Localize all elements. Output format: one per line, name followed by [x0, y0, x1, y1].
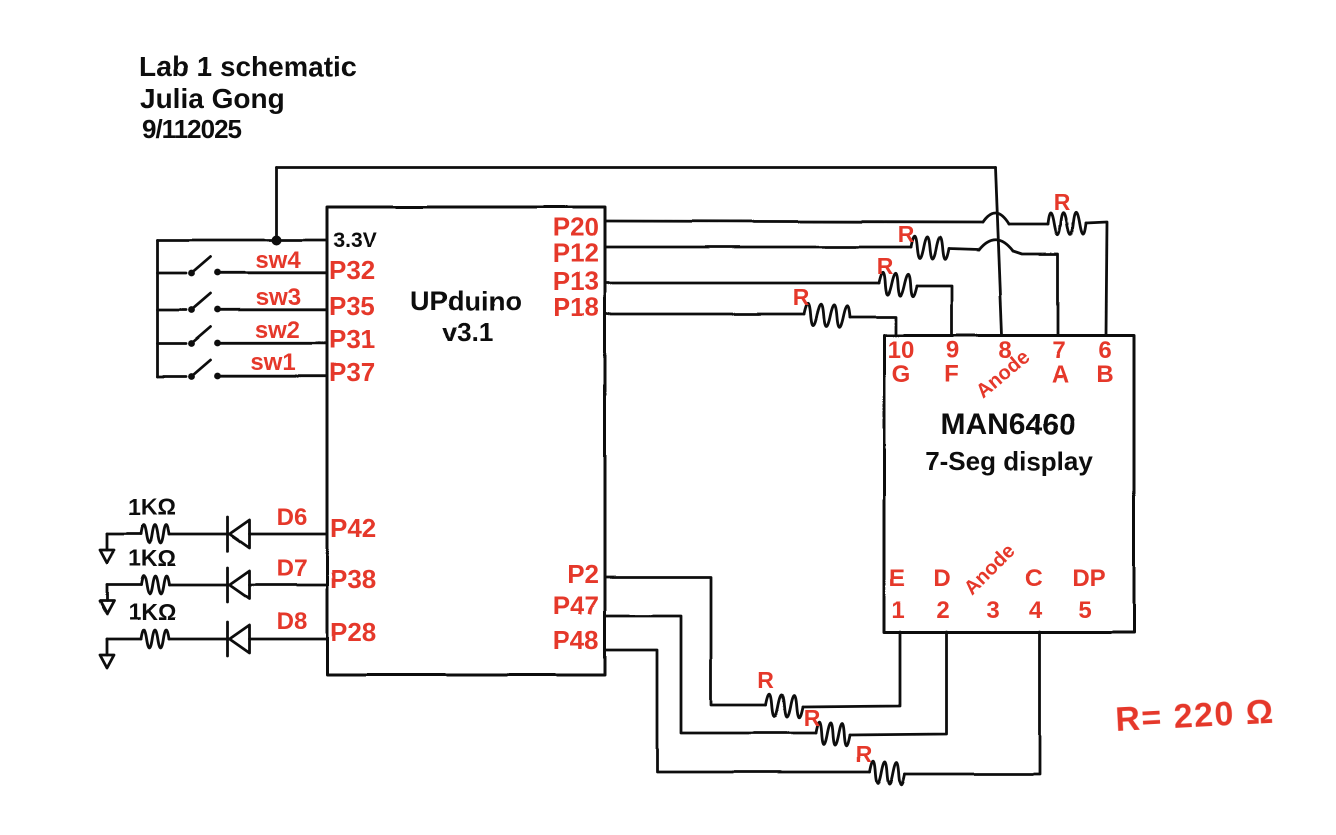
LED D7 branch	[100, 545, 327, 614]
switch SW3	[158, 284, 301, 313]
wire SW1 to P37	[218, 375, 328, 378]
svg-text:P35: P35	[329, 291, 375, 321]
wire 3.3V bus to U1	[158, 239, 328, 242]
svg-text:F: F	[945, 361, 960, 388]
wire 3.3V riser	[275, 168, 278, 241]
svg-text:3: 3	[986, 597, 999, 624]
resistor R 1K (D6)	[141, 525, 169, 543]
resistor R 1K (D8)	[141, 630, 169, 648]
svg-text:P28: P28	[330, 617, 376, 647]
wire R to LED D8	[169, 638, 229, 641]
resistor R (P2-1)	[766, 694, 803, 718]
wire 3.3V top run	[277, 166, 996, 169]
svg-text:1KΩ: 1KΩ	[128, 494, 176, 520]
svg-text:R: R	[804, 705, 821, 731]
svg-text:9/112025: 9/112025	[142, 114, 242, 144]
svg-text:P18: P18	[553, 292, 599, 322]
svg-text:P37: P37	[329, 357, 375, 387]
svg-text:6: 6	[1098, 337, 1111, 364]
resistor R (P18-10)	[804, 303, 850, 327]
ground	[106, 534, 109, 550]
wire P18 to display pin 10 with resistor R	[605, 284, 896, 335]
wire P2 to display pin 1 with resistor R	[605, 577, 900, 718]
wire SW4 to P32	[218, 271, 328, 274]
svg-text:P38: P38	[330, 564, 376, 594]
wire LED D8 to P28	[250, 638, 328, 641]
svg-text:R: R	[856, 741, 873, 767]
LED D6	[226, 517, 229, 551]
svg-text:4: 4	[1029, 597, 1043, 624]
switch SW1	[158, 349, 296, 380]
wire LED D6 to P42	[250, 533, 328, 536]
switch SW2	[158, 317, 300, 347]
wire switch bus vertical	[156, 240, 159, 377]
ground	[106, 639, 109, 655]
LED D8 branch	[100, 599, 327, 668]
svg-text:MAN6460: MAN6460	[940, 408, 1075, 441]
svg-text:A: A	[1051, 361, 1068, 388]
wire P48 to display pin 4 with resistor R	[605, 632, 1040, 785]
svg-text:G: G	[892, 361, 911, 388]
wire R to LED D7	[169, 584, 229, 587]
svg-text:C: C	[1025, 565, 1042, 592]
display U2 MAN6460 body	[884, 336, 1134, 633]
svg-text:R: R	[877, 253, 894, 279]
svg-text:1: 1	[891, 597, 904, 624]
svg-text:sw2: sw2	[254, 317, 299, 344]
svg-text:P12: P12	[553, 238, 599, 268]
resistor R (P12-7)	[911, 236, 949, 260]
svg-text:sw1: sw1	[250, 349, 295, 376]
wire ground to R	[107, 584, 141, 587]
wire ground to R	[107, 638, 141, 641]
wire ground to R	[107, 533, 141, 536]
svg-text:R: R	[1054, 189, 1071, 215]
svg-text:P47: P47	[553, 590, 599, 620]
wire R to LED D6	[169, 533, 229, 536]
svg-text:R: R	[758, 667, 775, 693]
svg-text:P31: P31	[329, 324, 375, 354]
svg-text:1KΩ: 1KΩ	[128, 599, 176, 625]
wire SW2 to P31	[218, 342, 328, 345]
svg-text:10: 10	[888, 337, 915, 364]
svg-text:sw3: sw3	[255, 284, 300, 311]
wire P47 to display pin 2 with resistor R	[605, 616, 946, 746]
wire SW3 to P35	[218, 308, 328, 311]
wire 3.3V drop to display pin 8	[996, 168, 1003, 336]
svg-text:R: R	[898, 221, 915, 247]
svg-text:5: 5	[1078, 597, 1091, 624]
svg-text:9: 9	[946, 337, 959, 364]
svg-text:Julia Gong: Julia Gong	[140, 83, 285, 114]
LED D6 branch	[100, 494, 327, 563]
svg-text:1KΩ: 1KΩ	[128, 545, 176, 571]
svg-text:UPduino: UPduino	[411, 286, 522, 316]
resistor R (P48-4)	[870, 761, 905, 785]
svg-text:P32: P32	[329, 255, 375, 285]
title text: Lab 1 schematic / Julia Gong / 9/112025	[139, 51, 357, 144]
switch SW4	[158, 247, 302, 276]
svg-text:D6: D6	[277, 504, 308, 531]
resistor R (P47-2)	[816, 722, 850, 746]
svg-text:7: 7	[1052, 337, 1065, 364]
svg-text:R: R	[793, 284, 810, 310]
svg-text:P48: P48	[553, 625, 599, 655]
svg-text:D7: D7	[277, 555, 308, 582]
svg-text:P2: P2	[567, 559, 599, 589]
svg-text:P42: P42	[330, 513, 376, 543]
wire P12 to display pin 7 with resistor R	[605, 221, 1058, 335]
ground	[106, 585, 109, 601]
svg-text:DP: DP	[1072, 565, 1105, 592]
svg-text:D8: D8	[277, 608, 308, 635]
junction 3.3V node	[272, 235, 282, 245]
svg-text:Lab 1 schematic: Lab 1 schematic	[139, 51, 357, 82]
svg-text:D: D	[933, 565, 950, 592]
svg-text:3.3V: 3.3V	[333, 229, 376, 252]
LED D8	[226, 622, 229, 656]
svg-text:sw4: sw4	[255, 247, 301, 274]
resistor R 1K (D7)	[141, 576, 169, 594]
wire LED D7 to P38	[250, 584, 328, 587]
LED D7	[226, 568, 229, 602]
svg-text:2: 2	[936, 597, 949, 624]
svg-text:E: E	[889, 565, 905, 592]
svg-text:B: B	[1096, 361, 1113, 388]
wire P13 to display pin 9 with resistor R	[605, 253, 952, 335]
IC U1 UPduino v3.1 body	[327, 207, 605, 675]
resistor R (P20-6)	[1048, 212, 1086, 234]
svg-text:v3.1: v3.1	[443, 317, 494, 347]
wire P20 to display pin 6 with resistor R	[605, 189, 1107, 335]
svg-text:7-Seg display: 7-Seg display	[925, 446, 1093, 476]
resistor R (P13-9)	[879, 272, 917, 296]
